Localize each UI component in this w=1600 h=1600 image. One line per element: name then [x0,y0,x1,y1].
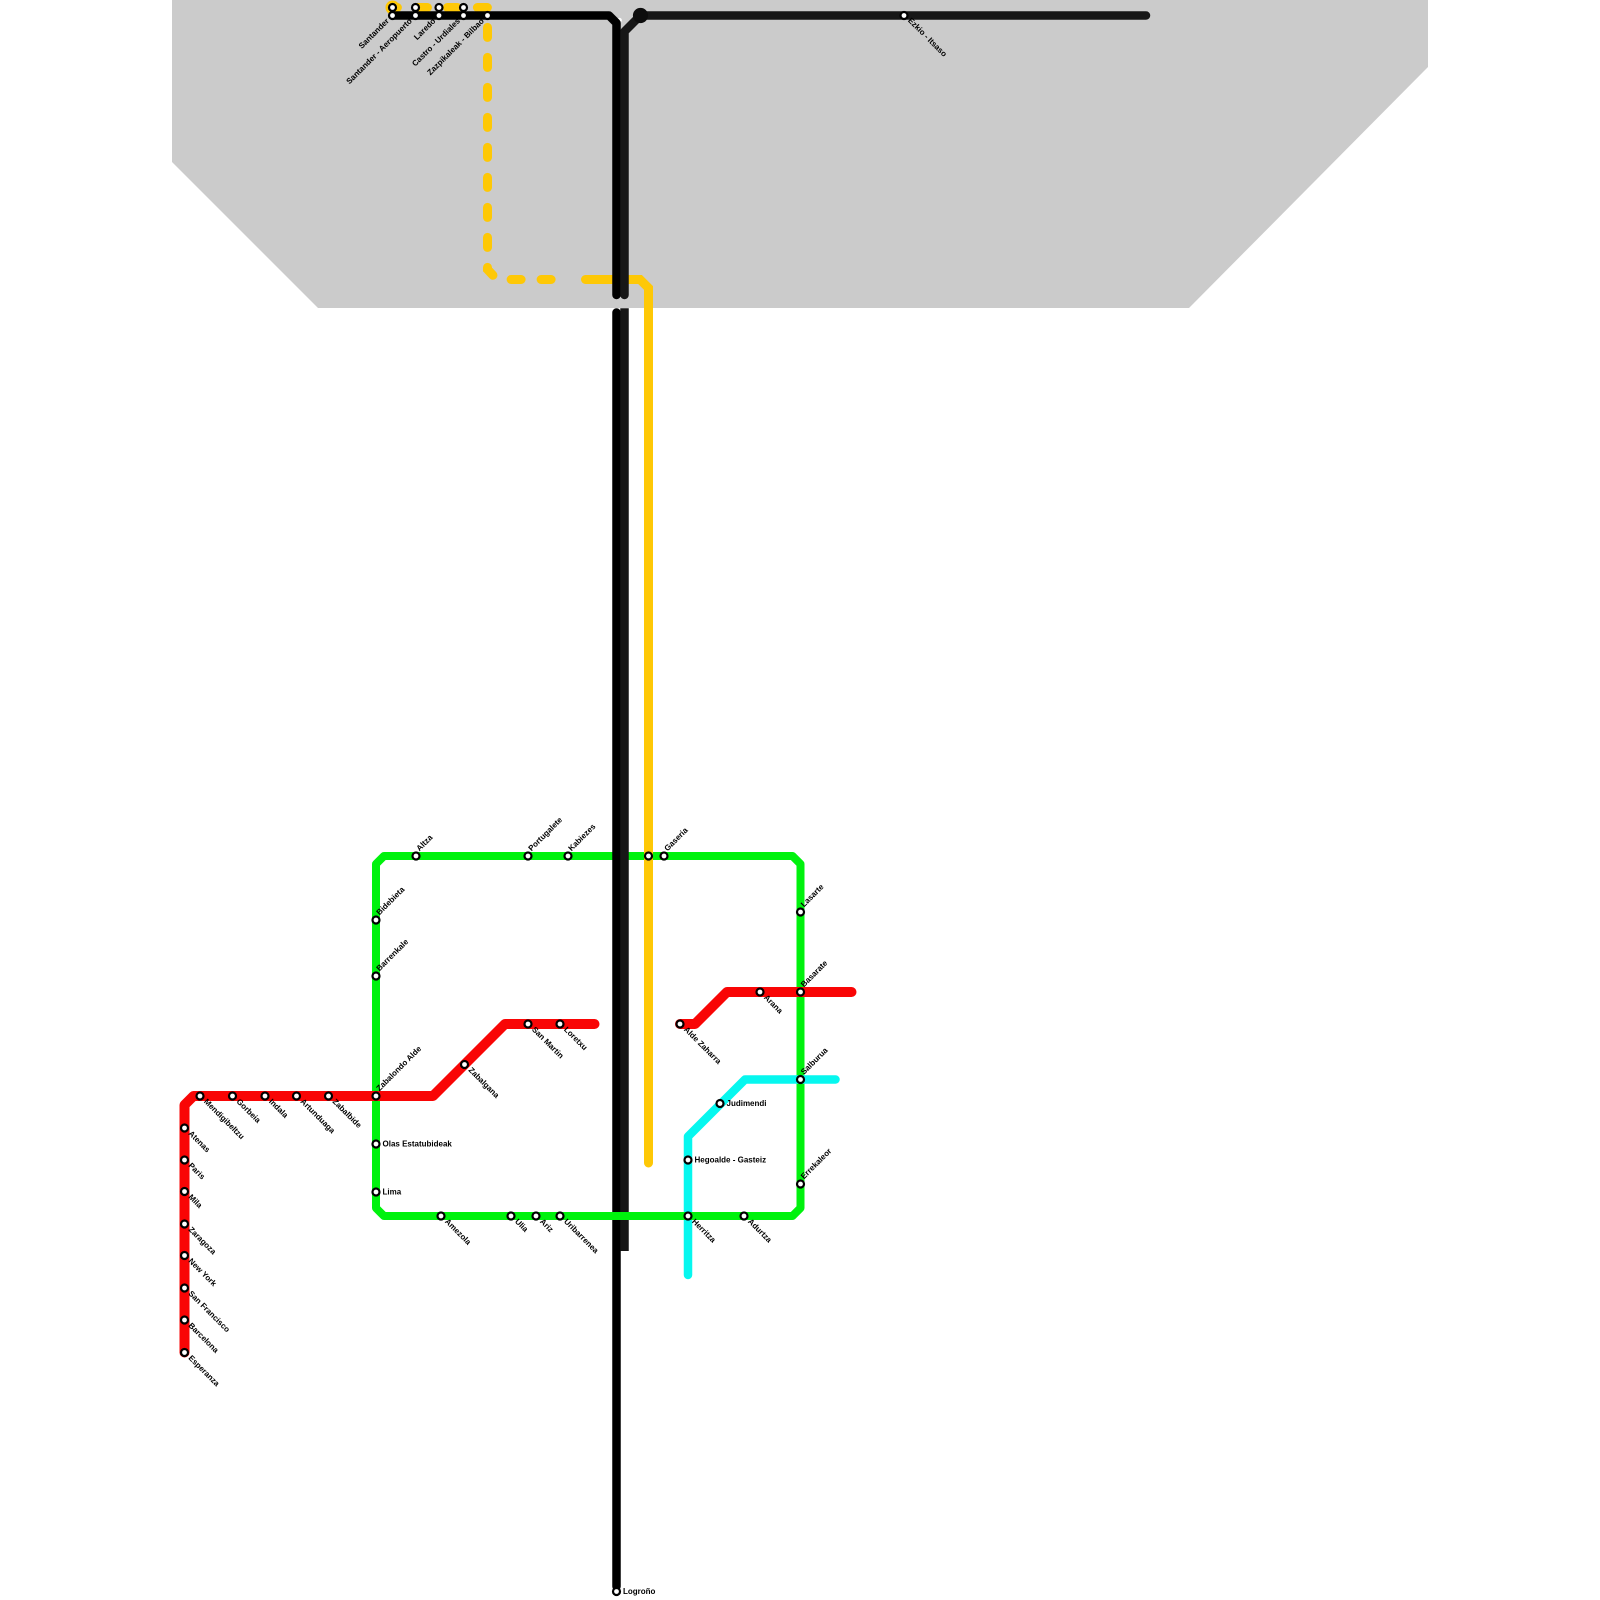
svg-text:Zaragoza: Zaragoza [187,1225,219,1257]
station Logrono [613,1588,620,1595]
station Zabalgana [461,1061,468,1068]
line Y yellow solid segment [586,280,649,1164]
station Portugalete [525,853,532,860]
station Castro-Urdiales (yellow) [460,4,467,11]
station Santander (black) [389,12,396,19]
station Olas Estatubideak [373,1141,380,1148]
station Zabalbide [325,1093,332,1100]
station Herritza [685,1213,692,1220]
station Santander-Aeropuerto (yellow) [412,4,419,11]
station Santander (yellow) [389,4,396,11]
line B dark: diagonal and vertical upper [625,17,640,296]
station Adurtza [741,1213,748,1220]
station Errekaleor [797,1181,804,1188]
svg-text:Hegoalde - Gasteiz: Hegoalde - Gasteiz [695,1156,767,1165]
line C cyan branch [688,1080,836,1276]
station New York [181,1252,188,1259]
svg-text:Zabalondo Alde: Zabalondo Alde [375,1044,424,1093]
station Lima [373,1189,380,1196]
line A black: Santander branch upper [393,16,617,296]
svg-text:Paris: Paris [187,1161,208,1182]
svg-text:Altza: Altza [415,833,435,853]
station Castro-Urdiales (black) [460,12,467,19]
station Ariz [533,1213,540,1220]
station Paris [181,1157,188,1164]
station Ulia [508,1213,515,1220]
line R2 red east branch [680,992,852,1024]
svg-text:Zabalbide: Zabalbide [331,1097,364,1130]
station Arana [757,989,764,996]
station Indala [262,1093,269,1100]
station Esperanza [181,1349,188,1356]
station Zaragoza [181,1221,188,1228]
station Uribarrenea [557,1213,564,1220]
station Zazpikaleak-Bilbao [484,12,491,19]
svg-text:Alde Zaharra: Alde Zaharra [682,1025,723,1066]
station Gaseria [661,853,668,860]
svg-text:Uribarrenea: Uribarrenea [562,1217,601,1256]
station Judimendi [717,1100,724,1107]
svg-text:Atenas: Atenas [187,1129,213,1155]
line R1 red west branch [185,1024,595,1353]
svg-text:Olas Estatubideak: Olas Estatubideak [383,1140,453,1149]
station Hegoalde-Gasteiz [685,1157,692,1164]
wire green bottom-edge overpass patch [598,1212,710,1220]
svg-text:Amezola: Amezola [443,1217,473,1247]
station Basarate [797,989,804,996]
station Loretxu [557,1021,564,1028]
svg-text:Zabalgana: Zabalgana [467,1066,502,1101]
svg-text:Adurtza: Adurtza [746,1217,774,1245]
station Laredo (yellow) [436,4,443,11]
svg-text:Esperanza: Esperanza [187,1354,222,1389]
station Barrenkale [373,973,380,980]
station Santander-Aeropuerto (black) [412,12,419,19]
station San Francisco [181,1285,188,1292]
station Artunduaga [293,1093,300,1100]
station Lasarte [797,909,804,916]
station Kabiezes [565,853,572,860]
station Altza [413,853,420,860]
svg-text:Loretxu: Loretxu [562,1025,589,1052]
station yellow-green crossing [645,853,652,860]
svg-text:Judimendi: Judimendi [727,1099,767,1108]
svg-text:Gorbeia: Gorbeia [235,1097,263,1125]
station Mila [181,1188,188,1195]
line L3 green loop [376,856,801,1216]
svg-text:Kabiezes: Kabiezes [567,822,598,853]
station Salburua [797,1076,804,1083]
svg-text:Herritza: Herritza [690,1217,718,1245]
station Bidebieta [373,917,380,924]
svg-text:San Martin: San Martin [530,1025,565,1060]
line Y yellow dashed segment [393,8,571,280]
station Amezola [438,1213,445,1220]
line Y terminus blob Santander [386,1,400,15]
line B dark: Ezkio branch horizontal [641,11,1146,20]
station Ezkio-Itsaso [901,12,908,19]
svg-text:Lima: Lima [383,1188,402,1197]
node junction (white circle under Y junction) [617,18,622,23]
station Barcelona [181,1317,188,1324]
station San Martin [525,1021,532,1028]
node interchange big dot [633,8,648,23]
station Laredo (black) [436,12,443,19]
station Gorbeia [229,1093,236,1100]
station Alde Zaharra [677,1021,684,1028]
station Mendigibeltzu [197,1093,204,1100]
svg-text:Logroño: Logroño [623,1587,656,1596]
svg-text:Barcelona: Barcelona [187,1321,221,1355]
svg-text:Gaseria: Gaseria [663,825,691,853]
line B dark: vertical lower [620,308,629,1251]
station Atenas [181,1125,188,1132]
svg-text:Portugalete: Portugalete [527,815,565,853]
station Zabalondo Alde [373,1093,380,1100]
svg-text:New York: New York [187,1257,219,1289]
zone polygon (gray service area) [172,0,1428,308]
line A black: main trunk lower [612,313,621,1587]
